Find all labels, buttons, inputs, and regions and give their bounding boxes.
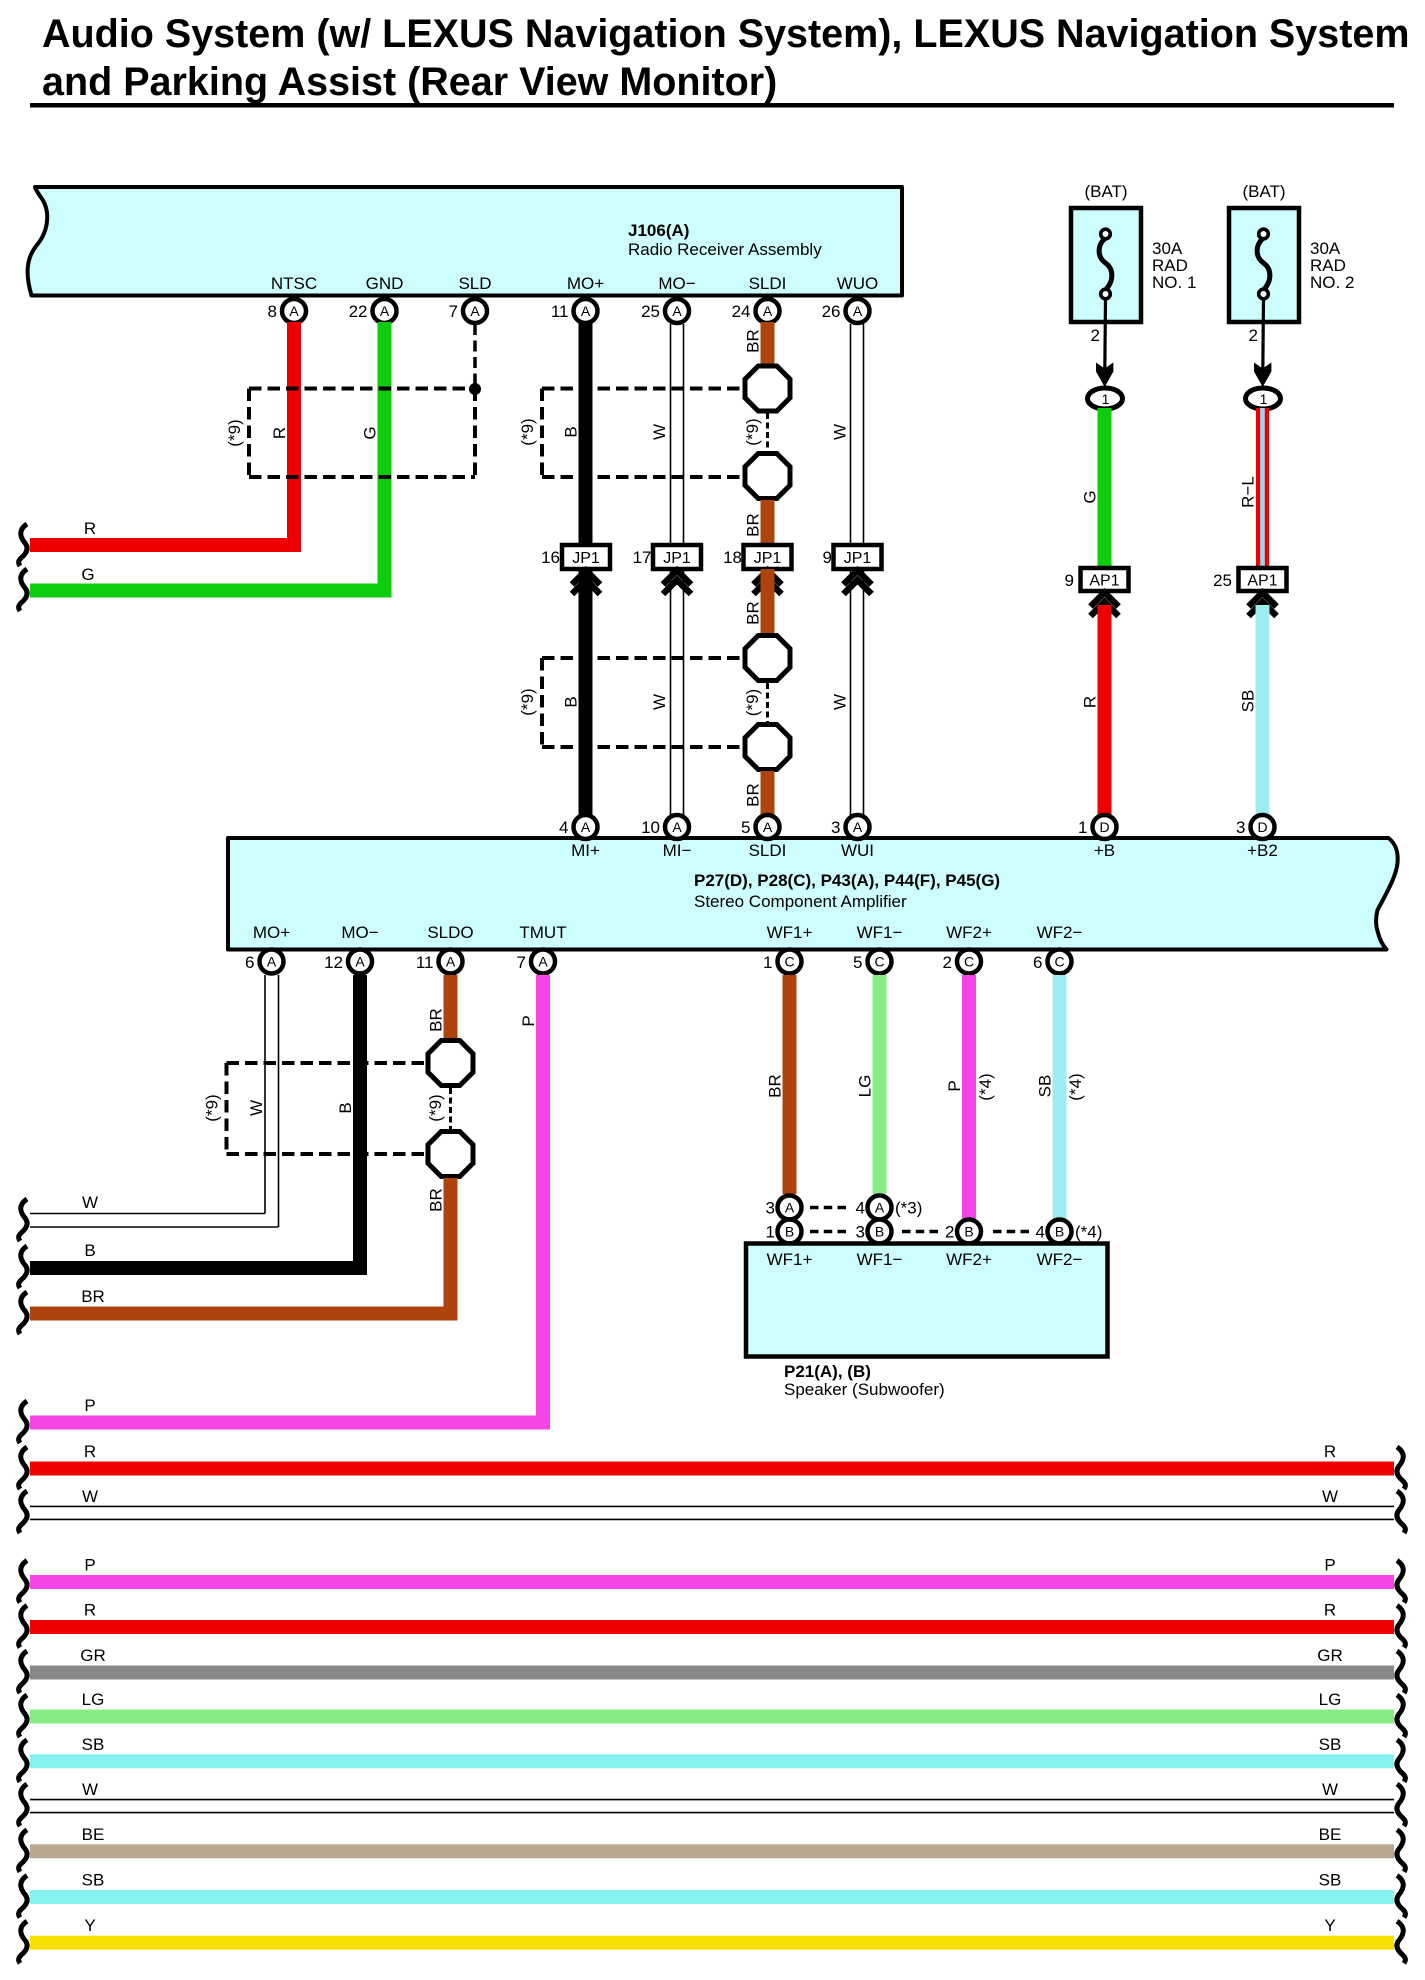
svg-text:Audio System (w/ LEXUS Navigat: Audio System (w/ LEXUS Navigation System… bbox=[42, 12, 1409, 56]
svg-text:A: A bbox=[581, 303, 591, 319]
brace left SB2 bbox=[19, 1876, 27, 1918]
shield dashed box 2 bottom edge bbox=[542, 745, 742, 749]
svg-text:(*9): (*9) bbox=[518, 688, 537, 715]
dashes between 2B and 4B bbox=[993, 1230, 1029, 1234]
svg-text:A: A bbox=[267, 954, 277, 970]
shield octagon 4 bbox=[745, 725, 790, 770]
pin 7 A (SLD) bbox=[449, 299, 487, 323]
brace left SB bbox=[19, 1740, 27, 1782]
svg-text:(*9): (*9) bbox=[743, 689, 762, 716]
svg-text:BR: BR bbox=[744, 783, 763, 807]
svg-text:3: 3 bbox=[1236, 818, 1245, 837]
shield dashed box 3 top edge bbox=[227, 1061, 426, 1065]
svg-text:22: 22 bbox=[349, 302, 368, 321]
svg-text:B: B bbox=[336, 1102, 355, 1113]
svg-text:24: 24 bbox=[732, 302, 751, 321]
svg-text:SB: SB bbox=[82, 1871, 105, 1890]
svg-text:R: R bbox=[84, 1442, 96, 1461]
svg-text:(*4): (*4) bbox=[1075, 1223, 1102, 1242]
svg-text:BR: BR bbox=[81, 1287, 105, 1306]
shield dashed box 1 top edge bbox=[249, 387, 475, 391]
svg-text:G: G bbox=[1081, 490, 1100, 503]
amp pin 12 A (MO-) bbox=[324, 950, 372, 974]
speaker pin 2 B bbox=[945, 1220, 981, 1244]
svg-text:(*9): (*9) bbox=[225, 419, 244, 446]
wire BR (SLDO) segment 1 bbox=[444, 975, 458, 1039]
svg-text:C: C bbox=[1054, 954, 1064, 970]
svg-text:2: 2 bbox=[1249, 326, 1258, 345]
amp pin 2 C (WF2+) bbox=[943, 950, 981, 974]
amp pin 6 A (MO+) bbox=[245, 950, 283, 974]
svg-text:WF2+: WF2+ bbox=[946, 923, 992, 942]
svg-text:8: 8 bbox=[268, 302, 277, 321]
brace left W2 bbox=[19, 1784, 27, 1826]
svg-text:6: 6 bbox=[245, 953, 254, 972]
svg-text:10: 10 bbox=[641, 818, 660, 837]
svg-text:WF1−: WF1− bbox=[857, 923, 903, 942]
svg-text:1: 1 bbox=[1078, 818, 1087, 837]
wire R2 full-width bbox=[30, 1620, 1394, 1634]
svg-text:TMUT: TMUT bbox=[519, 923, 566, 942]
svg-text:R: R bbox=[270, 427, 289, 439]
fuse element RAD NO.1 bbox=[1099, 229, 1112, 299]
wire B horizontal to left bbox=[30, 1261, 367, 1275]
svg-text:MO−: MO− bbox=[341, 923, 378, 942]
shield dashed box 1b left edge bbox=[540, 389, 544, 478]
junction connector 16 JP1 bbox=[541, 545, 610, 569]
shield dashed box 1b bottom edge bbox=[542, 475, 742, 479]
shield dashed box 1b top edge bbox=[542, 387, 742, 391]
wire W (MI-) lower bbox=[671, 569, 684, 815]
speaker pin 3 B bbox=[856, 1220, 892, 1244]
svg-text:Y: Y bbox=[1324, 1916, 1335, 1935]
fuse 30A RAD NO.2 box bbox=[1229, 208, 1299, 322]
svg-text:R: R bbox=[1081, 696, 1100, 708]
amp pin 1 C (WF1+) bbox=[763, 950, 801, 974]
svg-text:D: D bbox=[1257, 819, 1267, 835]
svg-text:B: B bbox=[1055, 1224, 1064, 1240]
shield link dashed 3 bbox=[449, 1088, 452, 1129]
pin 24 A (SLDI) bbox=[732, 299, 780, 323]
arrow from fuse 1 bbox=[1096, 299, 1113, 387]
wire R to +B bbox=[1098, 605, 1112, 815]
svg-text:R: R bbox=[1324, 1442, 1336, 1461]
svg-text:BE: BE bbox=[82, 1825, 105, 1844]
svg-text:P: P bbox=[84, 1396, 95, 1415]
junction connector 9 AP1 bbox=[1065, 568, 1129, 591]
oval connector 1 (fuse 1) bbox=[1088, 388, 1123, 409]
svg-text:7: 7 bbox=[449, 302, 458, 321]
wire G from fuse 1 bbox=[1098, 408, 1112, 568]
svg-text:WF2+: WF2+ bbox=[946, 1250, 992, 1269]
svg-text:AP1: AP1 bbox=[1089, 573, 1119, 590]
wire GR full-width bbox=[30, 1666, 1394, 1680]
speaker pin 4 B bbox=[1036, 1220, 1072, 1244]
svg-text:26: 26 bbox=[822, 302, 841, 321]
title rule bbox=[30, 103, 1394, 108]
svg-text:W: W bbox=[831, 694, 850, 710]
svg-text:WF2−: WF2− bbox=[1037, 1250, 1083, 1269]
svg-text:(*3): (*3) bbox=[895, 1199, 922, 1218]
wire BR (SLDI) segment 1 bbox=[761, 322, 775, 364]
wire P horizontal to left bbox=[30, 1416, 550, 1430]
wire BR (SLDO) segment 2 vertical bbox=[444, 1178, 458, 1321]
svg-text:A: A bbox=[763, 303, 773, 319]
wire LG (WF1-) bbox=[873, 975, 887, 1194]
svg-text:AP1: AP1 bbox=[1247, 573, 1277, 590]
svg-text:SLD: SLD bbox=[458, 274, 491, 293]
chevrons JP1 9 bbox=[844, 571, 872, 595]
svg-text:2: 2 bbox=[943, 953, 952, 972]
svg-text:(BAT): (BAT) bbox=[1084, 182, 1127, 201]
junction connector 25 AP1 bbox=[1213, 568, 1286, 591]
svg-text:A: A bbox=[853, 819, 863, 835]
svg-text:WUO: WUO bbox=[837, 274, 879, 293]
shield dashed box 1 bottom edge bbox=[249, 475, 475, 479]
amp pin 3 D (+B2) bbox=[1236, 815, 1274, 839]
arrow from fuse 2 bbox=[1254, 299, 1271, 387]
brace left P bbox=[19, 1561, 27, 1603]
brace left BE bbox=[19, 1830, 27, 1872]
wire W (MO+) below amp vertical bbox=[265, 975, 279, 1227]
speaker pin 3 A bbox=[766, 1196, 802, 1220]
brace wire end B bbox=[19, 1246, 27, 1288]
brace wire end G bbox=[19, 569, 27, 611]
svg-text:JP1: JP1 bbox=[572, 550, 600, 567]
svg-text:J106(A): J106(A) bbox=[628, 221, 689, 240]
radio receiver assembly box J106(A) bbox=[28, 187, 902, 296]
svg-text:W: W bbox=[247, 1100, 266, 1116]
pin 22 A (GND) bbox=[349, 299, 397, 323]
svg-text:WUI: WUI bbox=[841, 841, 874, 860]
svg-text:G: G bbox=[361, 426, 380, 439]
svg-text:SB: SB bbox=[1239, 690, 1258, 713]
chevrons JP1 17 bbox=[663, 571, 691, 595]
wire G horizontal to left edge bbox=[30, 584, 392, 598]
svg-text:2: 2 bbox=[1091, 326, 1100, 345]
svg-text:11: 11 bbox=[416, 953, 434, 972]
svg-text:C: C bbox=[964, 954, 974, 970]
wire R-L from fuse 2 bbox=[1256, 408, 1269, 568]
wire BR (SLDI) segment 4 bbox=[761, 771, 775, 815]
svg-text:LG: LG bbox=[856, 1075, 875, 1098]
svg-text:A: A bbox=[785, 1200, 795, 1216]
shield wire SLD dashed stub bbox=[473, 324, 477, 388]
svg-text:A: A bbox=[763, 819, 773, 835]
wire BE full-width bbox=[30, 1844, 1394, 1858]
wire W full-width bbox=[30, 1506, 1394, 1519]
shield dashed box 3 left edge bbox=[225, 1063, 229, 1154]
stereo component amplifier box bbox=[228, 838, 1398, 950]
brace left R2 bbox=[19, 1606, 27, 1648]
wire BR (SLDI) segment 2 bbox=[761, 500, 775, 545]
svg-text:BR: BR bbox=[427, 1008, 446, 1032]
svg-text:R: R bbox=[1324, 1601, 1336, 1620]
svg-text:A: A bbox=[446, 954, 456, 970]
svg-text:B: B bbox=[562, 696, 581, 707]
wire R full-width bbox=[30, 1462, 1394, 1476]
svg-text:P21(A), (B): P21(A), (B) bbox=[784, 1362, 871, 1381]
brace wire end R bbox=[19, 524, 27, 566]
svg-text:Speaker (Subwoofer): Speaker (Subwoofer) bbox=[784, 1380, 945, 1399]
svg-text:B: B bbox=[875, 1224, 884, 1240]
wire W2 full-width bbox=[30, 1800, 1394, 1813]
svg-text:(*9): (*9) bbox=[518, 418, 537, 445]
svg-text:SB: SB bbox=[82, 1735, 105, 1754]
dashes between 1B and 3B bbox=[810, 1230, 846, 1234]
svg-text:A: A bbox=[470, 303, 480, 319]
amp pin 6 C (WF2-) bbox=[1033, 950, 1071, 974]
svg-text:9: 9 bbox=[1065, 571, 1074, 590]
amp pin 4 A (MI+) bbox=[559, 815, 597, 839]
brace left Y bbox=[19, 1921, 27, 1963]
brace right R bbox=[1397, 1447, 1405, 1489]
svg-text:(*4): (*4) bbox=[976, 1073, 995, 1100]
svg-text:BE: BE bbox=[1319, 1825, 1342, 1844]
svg-text:+B: +B bbox=[1094, 841, 1115, 860]
shield octagon 3 bbox=[745, 636, 790, 681]
wire W (MO+) horizontal to left bbox=[30, 1214, 279, 1228]
svg-text:A: A bbox=[538, 954, 548, 970]
svg-text:(*9): (*9) bbox=[743, 418, 762, 445]
svg-text:NO. 2: NO. 2 bbox=[1310, 273, 1354, 292]
brace left LG bbox=[19, 1695, 27, 1737]
svg-text:JP1: JP1 bbox=[663, 550, 691, 567]
svg-text:WF1+: WF1+ bbox=[767, 923, 813, 942]
oval connector 1 (fuse 2) bbox=[1246, 388, 1281, 409]
pin 11 A (MO+) bbox=[551, 299, 598, 323]
svg-text:P: P bbox=[945, 1080, 964, 1091]
wire W (WUO) upper bbox=[851, 324, 864, 545]
svg-text:(*9): (*9) bbox=[426, 1094, 445, 1121]
svg-text:4: 4 bbox=[1036, 1223, 1045, 1242]
wire BR (WF1+) bbox=[783, 975, 797, 1194]
brace left R bbox=[19, 1447, 27, 1489]
brace right W bbox=[1397, 1491, 1405, 1533]
svg-text:+B2: +B2 bbox=[1247, 841, 1278, 860]
amp pin 7 A (TMUT) bbox=[517, 950, 555, 974]
svg-text:(*4): (*4) bbox=[1066, 1073, 1085, 1100]
shield dashed box 1 right edge bbox=[473, 389, 477, 478]
brace wire end BR bbox=[19, 1292, 27, 1334]
svg-text:16: 16 bbox=[541, 548, 560, 567]
shield dashed box 2 top edge bbox=[542, 656, 742, 660]
svg-text:25: 25 bbox=[1213, 571, 1232, 590]
svg-text:G: G bbox=[81, 565, 94, 584]
amp pin 3 A (WUI) bbox=[831, 815, 869, 839]
svg-text:LG: LG bbox=[82, 1690, 105, 1709]
amp pin 5 A (SLDI) bbox=[741, 815, 779, 839]
shield link dashed 2 bbox=[766, 683, 769, 722]
svg-text:9: 9 bbox=[823, 548, 832, 567]
wire W (WUI) lower bbox=[851, 569, 864, 815]
svg-text:W: W bbox=[1322, 1487, 1338, 1506]
wire R horizontal to left edge bbox=[30, 538, 301, 552]
brace right P bbox=[1397, 1561, 1405, 1603]
svg-text:W: W bbox=[650, 694, 669, 710]
brace wire end W bbox=[19, 1199, 27, 1241]
svg-text:P27(D), P28(C), P43(A), P44(F): P27(D), P28(C), P43(A), P44(F), P45(G) bbox=[694, 871, 1000, 890]
shield octagon 6 bbox=[428, 1132, 473, 1177]
svg-text:12: 12 bbox=[324, 953, 343, 972]
brace right GR bbox=[1397, 1651, 1405, 1693]
svg-text:P: P bbox=[84, 1556, 95, 1575]
svg-text:D: D bbox=[1099, 819, 1109, 835]
svg-text:JP1: JP1 bbox=[754, 550, 782, 567]
svg-text:SLDI: SLDI bbox=[749, 841, 787, 860]
wire LG full-width bbox=[30, 1710, 1394, 1724]
svg-text:SB: SB bbox=[1319, 1735, 1342, 1754]
wire W (MO-) upper bbox=[671, 324, 684, 545]
svg-text:B: B bbox=[964, 1224, 973, 1240]
amp pin 1 D (+B) bbox=[1078, 815, 1116, 839]
brace right W2 bbox=[1397, 1784, 1405, 1826]
svg-text:W: W bbox=[1322, 1780, 1338, 1799]
wire SB (WF2-) bbox=[1053, 975, 1067, 1219]
svg-text:BR: BR bbox=[766, 1074, 785, 1098]
wire R vertical from NTSC bbox=[287, 322, 301, 544]
svg-text:WF1−: WF1− bbox=[857, 1250, 903, 1269]
svg-text:(BAT): (BAT) bbox=[1242, 182, 1285, 201]
svg-text:BR: BR bbox=[427, 1188, 446, 1212]
svg-text:C: C bbox=[784, 954, 794, 970]
svg-text:Y: Y bbox=[84, 1916, 95, 1935]
svg-text:W: W bbox=[831, 424, 850, 440]
svg-text:Radio Receiver Assembly: Radio Receiver Assembly bbox=[628, 240, 822, 259]
shield octagon 1 bbox=[745, 366, 790, 411]
svg-text:4: 4 bbox=[559, 818, 568, 837]
svg-text:NO. 1: NO. 1 bbox=[1152, 273, 1196, 292]
chevrons AP1 9 bbox=[1091, 593, 1119, 617]
wire P (WF2+) bbox=[962, 975, 976, 1219]
wire BR (SLDI) segment 3 bbox=[761, 569, 775, 635]
svg-text:BR: BR bbox=[744, 329, 763, 353]
svg-text:11: 11 bbox=[551, 302, 569, 321]
amp pin 11 A (SLDO) bbox=[416, 950, 463, 974]
svg-text:W: W bbox=[650, 424, 669, 440]
svg-text:1: 1 bbox=[1102, 391, 1110, 407]
svg-text:W: W bbox=[82, 1193, 98, 1212]
pin 25 A (MO-) bbox=[641, 299, 689, 323]
svg-text:2: 2 bbox=[945, 1223, 954, 1242]
brace wire end P bbox=[19, 1401, 27, 1443]
svg-text:3: 3 bbox=[856, 1223, 865, 1242]
junction dot SLD bbox=[469, 383, 481, 395]
wire B (MO+) upper bbox=[579, 322, 593, 545]
svg-text:A: A bbox=[672, 303, 682, 319]
svg-text:(*9): (*9) bbox=[203, 1094, 222, 1121]
shield dashed box 2 left edge bbox=[540, 658, 544, 747]
svg-text:LG: LG bbox=[1319, 1690, 1342, 1709]
svg-text:3: 3 bbox=[766, 1199, 775, 1218]
svg-text:A: A bbox=[289, 303, 299, 319]
svg-text:A: A bbox=[672, 819, 682, 835]
svg-text:WF1+: WF1+ bbox=[767, 1250, 813, 1269]
brace right BE bbox=[1397, 1830, 1405, 1872]
wire P (TMUT) vertical bbox=[536, 975, 550, 1430]
shield dashed box 1 left edge bbox=[247, 389, 251, 478]
svg-text:SLDO: SLDO bbox=[427, 923, 473, 942]
svg-text:SLDI: SLDI bbox=[749, 274, 787, 293]
svg-text:BR: BR bbox=[744, 601, 763, 625]
svg-text:A: A bbox=[380, 303, 390, 319]
svg-text:7: 7 bbox=[517, 953, 526, 972]
svg-text:W: W bbox=[82, 1487, 98, 1506]
dashes between 3B and 2B bbox=[902, 1230, 938, 1234]
junction connector 18 JP1 bbox=[723, 545, 791, 569]
speaker pin 4 A bbox=[856, 1196, 892, 1220]
svg-text:GR: GR bbox=[80, 1646, 106, 1665]
wire G vertical from GND bbox=[378, 322, 392, 584]
svg-text:5: 5 bbox=[853, 953, 862, 972]
svg-text:B: B bbox=[84, 1241, 95, 1260]
svg-text:A: A bbox=[355, 954, 365, 970]
shield dashed box 3 bottom edge bbox=[227, 1152, 426, 1156]
svg-text:MO+: MO+ bbox=[253, 923, 290, 942]
svg-text:A: A bbox=[853, 303, 863, 319]
brace left GR bbox=[19, 1651, 27, 1693]
svg-text:R: R bbox=[84, 1601, 96, 1620]
shield link dashed between octagons bbox=[766, 413, 769, 451]
junction connector 17 JP1 bbox=[633, 545, 701, 569]
wire SB full-width bbox=[30, 1754, 1394, 1768]
svg-text:1: 1 bbox=[766, 1223, 775, 1242]
wire P full-width bbox=[30, 1575, 1394, 1589]
svg-text:6: 6 bbox=[1033, 953, 1042, 972]
pin 8 A (NTSC) bbox=[268, 299, 306, 323]
svg-text:MO+: MO+ bbox=[567, 274, 604, 293]
fuse 30A RAD NO.1 box bbox=[1071, 208, 1141, 322]
svg-text:R−L: R−L bbox=[1239, 476, 1258, 508]
svg-text:C: C bbox=[874, 954, 884, 970]
svg-text:1: 1 bbox=[1260, 391, 1268, 407]
svg-text:W: W bbox=[82, 1780, 98, 1799]
svg-text:17: 17 bbox=[633, 548, 652, 567]
dashes between 3A and 4A bbox=[810, 1206, 846, 1210]
svg-text:MI+: MI+ bbox=[571, 841, 600, 860]
svg-text:5: 5 bbox=[741, 818, 750, 837]
wire Y full-width bbox=[30, 1936, 1394, 1950]
amp pin 10 A (MI-) bbox=[641, 815, 689, 839]
svg-text:4: 4 bbox=[856, 1199, 865, 1218]
svg-text:3: 3 bbox=[831, 818, 840, 837]
svg-text:R: R bbox=[84, 519, 96, 538]
svg-text:18: 18 bbox=[723, 548, 742, 567]
svg-text:P: P bbox=[1324, 1556, 1335, 1575]
svg-text:B: B bbox=[562, 426, 581, 437]
brace right SB bbox=[1397, 1740, 1405, 1782]
speaker subwoofer box bbox=[746, 1244, 1108, 1357]
brace right SB2 bbox=[1397, 1876, 1405, 1918]
svg-text:and Parking Assist (Rear View: and Parking Assist (Rear View Monitor) bbox=[42, 60, 777, 104]
fuse rating text 30A RAD NO. 1 bbox=[1152, 239, 1196, 292]
svg-text:WF2−: WF2− bbox=[1037, 923, 1083, 942]
svg-text:MI−: MI− bbox=[663, 841, 692, 860]
svg-text:Stereo Component Amplifier: Stereo Component Amplifier bbox=[694, 892, 907, 911]
svg-text:P: P bbox=[519, 1015, 538, 1026]
svg-text:25: 25 bbox=[641, 302, 660, 321]
wire BR horizontal to left bbox=[30, 1307, 458, 1321]
brace left W bbox=[19, 1491, 27, 1533]
svg-text:A: A bbox=[581, 819, 591, 835]
svg-text:1: 1 bbox=[763, 953, 772, 972]
svg-text:BR: BR bbox=[744, 513, 763, 537]
chevrons AP1 25 bbox=[1249, 593, 1277, 617]
brace right R2 bbox=[1397, 1606, 1405, 1648]
wire B (MO-) below amp vertical bbox=[353, 975, 367, 1275]
svg-text:JP1: JP1 bbox=[844, 550, 872, 567]
svg-text:A: A bbox=[875, 1200, 885, 1216]
